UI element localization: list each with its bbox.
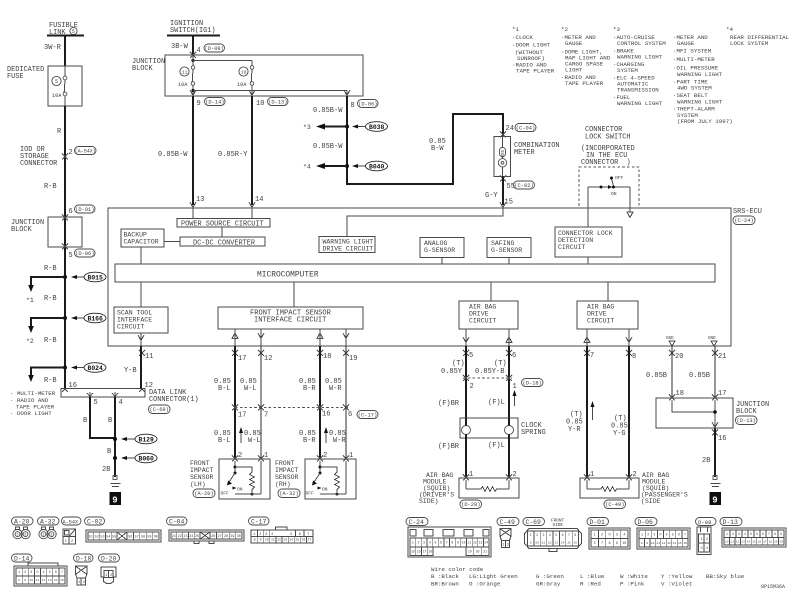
svg-text:WARNING LIGHT: WARNING LIGHT	[677, 71, 723, 78]
air bag module passenger label	[604, 472, 688, 509]
svg-text:10: 10	[651, 542, 655, 545]
svg-text:6: 6	[299, 533, 301, 537]
svg-text:7: 7	[568, 533, 570, 537]
ground ref 9 left	[110, 492, 122, 506]
svg-text:B-L: B-L	[218, 385, 231, 393]
twist arrow passenger	[591, 401, 595, 420]
pin 19 below ecu	[343, 350, 357, 363]
svg-text:TAPE PLAYER: TAPE PLAYER	[516, 68, 555, 75]
svg-text:5: 5	[756, 532, 758, 536]
svg-text:A-20: A-20	[14, 519, 30, 526]
svg-text:8: 8	[574, 533, 576, 537]
svg-text:2: 2	[50, 534, 52, 538]
wire 0.85Y-R pin7	[566, 346, 587, 478]
svg-text:B :Black: B :Black	[431, 573, 459, 580]
svg-text:(T): (T)	[494, 360, 507, 368]
svg-text:10A: 10A	[178, 82, 188, 88]
svg-text:6: 6	[55, 570, 57, 574]
front impact sensor RH box	[305, 459, 356, 499]
svg-text:8P15M36A: 8P15M36A	[761, 584, 785, 590]
svg-text:19: 19	[349, 355, 357, 363]
svg-text:0.85R-Y: 0.85R-Y	[218, 151, 248, 159]
node junction dot 2	[63, 316, 67, 320]
svg-text:CAPACITOR: CAPACITOR	[124, 239, 159, 246]
svg-text:BB:Sky blue: BB:Sky blue	[706, 573, 745, 580]
wire 0.85B-R upper	[299, 346, 320, 459]
svg-text:G-Y: G-Y	[485, 192, 498, 200]
svg-text:13: 13	[741, 540, 745, 543]
svg-text:(A-54X): (A-54X)	[75, 149, 96, 155]
front impact sensor interface circuit box	[218, 307, 363, 329]
pin 24 connector C-04	[500, 124, 536, 138]
svg-text:4WD SYSTEM: 4WD SYSTEM	[677, 85, 712, 92]
svg-text:W-R: W-R	[329, 385, 342, 393]
svg-text:CIRCUIT: CIRCUIT	[117, 324, 144, 331]
connector tag B038	[352, 122, 388, 132]
svg-text:SRS: SRS	[502, 149, 506, 157]
svg-text:DETECTION: DETECTION	[558, 237, 593, 244]
svg-text:IMPACT: IMPACT	[275, 467, 299, 474]
wire 0.85B-L lower label	[214, 430, 231, 445]
pin 12 below ecu	[258, 350, 272, 363]
svg-text:0.85B-W: 0.85B-W	[158, 151, 188, 159]
svg-text:W-R: W-R	[333, 437, 346, 445]
node junction dot B129	[113, 437, 117, 441]
svg-text:4: 4	[706, 547, 708, 551]
svg-text:14: 14	[747, 540, 751, 543]
svg-text:*2: *2	[26, 338, 34, 345]
svg-text:4: 4	[744, 532, 746, 536]
svg-text:CONTROL SYSTEM: CONTROL SYSTEM	[617, 40, 666, 47]
svg-text:C-04: C-04	[169, 519, 185, 526]
junction block 1 label	[11, 219, 44, 234]
connector D-13 pinout	[720, 518, 786, 548]
svg-text:12: 12	[662, 542, 666, 545]
svg-text:(RH): (RH)	[275, 481, 291, 488]
wire backup to microcomputer	[140, 247, 142, 264]
sensor RH internals	[306, 461, 347, 497]
svg-text:BACKUP: BACKUP	[124, 232, 148, 239]
junction block 2 box	[165, 55, 363, 96]
connector C-02 pinout	[85, 517, 162, 542]
pin 15 entry	[347, 202, 506, 237]
svg-text:0.85B: 0.85B	[689, 372, 710, 380]
module passenger pin labels	[584, 471, 637, 481]
svg-text:C-69: C-69	[526, 519, 542, 526]
svg-text:14: 14	[289, 538, 293, 542]
svg-text:10A: 10A	[237, 82, 247, 88]
branch bullet list	[10, 390, 56, 417]
wire micro to scan tool	[140, 282, 142, 307]
svg-text:C-02: C-02	[87, 519, 103, 526]
pin 13 entry	[190, 196, 204, 219]
svg-text:*4: *4	[303, 164, 311, 171]
sensor LH internals	[221, 461, 262, 497]
svg-text:INTERFACE: INTERFACE	[117, 317, 152, 324]
SRS warning lamp	[498, 137, 506, 177]
svg-text:13: 13	[283, 538, 287, 542]
gnd arrow pin 21	[708, 337, 717, 346]
svg-text:18: 18	[428, 550, 432, 554]
svg-text:B060: B060	[139, 456, 155, 463]
svg-text:(D-06): (D-06)	[358, 102, 377, 108]
svg-text:4: 4	[549, 533, 551, 537]
svg-text:(D-06): (D-06)	[75, 251, 94, 257]
svg-text:B-L: B-L	[218, 437, 231, 445]
svg-text:B: B	[108, 417, 112, 425]
node dot B040	[345, 164, 349, 168]
svg-text:5: 5	[55, 79, 58, 85]
combination meter box	[494, 137, 511, 177]
svg-text:(C-69): (C-69)	[149, 407, 168, 413]
svg-text:· MULTI-METER: · MULTI-METER	[10, 390, 56, 397]
svg-text:6: 6	[562, 533, 564, 537]
note column 2	[561, 26, 611, 87]
svg-text:21: 21	[718, 353, 726, 361]
svg-text:10: 10	[622, 542, 626, 546]
svg-text:10: 10	[462, 541, 466, 545]
svg-text:GAUGE: GAUGE	[677, 40, 695, 47]
wire internal bus bottom to pin 8	[193, 91, 347, 97]
svg-text:8: 8	[451, 541, 453, 545]
IOD or storage connector label	[20, 146, 57, 168]
svg-text:0.85Y: 0.85Y	[441, 368, 463, 376]
junction block D-13 pin labels	[669, 390, 726, 401]
svg-text:7: 7	[601, 542, 603, 546]
svg-text:16: 16	[758, 540, 762, 543]
svg-text:23: 23	[183, 535, 187, 539]
svg-text:FUSE: FUSE	[7, 73, 24, 81]
svg-text:(C-02): (C-02)	[514, 183, 533, 189]
wire R main left vertical	[64, 106, 66, 388]
svg-text:17: 17	[307, 538, 311, 542]
svg-text:9: 9	[457, 541, 459, 545]
svg-text:ON: ON	[322, 487, 328, 493]
svg-text:WARNING LIGHT: WARNING LIGHT	[323, 239, 374, 246]
svg-text:53: 53	[100, 535, 104, 539]
svg-text:9: 9	[616, 542, 618, 546]
svg-text:1: 1	[641, 533, 643, 537]
SRS-ECU label C-24	[733, 208, 762, 225]
svg-text:9: 9	[24, 579, 26, 582]
svg-text:SCAN TOOL: SCAN TOOL	[117, 310, 152, 317]
pin 16 below jb	[712, 430, 726, 444]
svg-text:2B: 2B	[702, 457, 710, 465]
svg-text:4: 4	[197, 47, 201, 55]
svg-text:R-B: R-B	[44, 295, 57, 303]
svg-text:5: 5	[94, 399, 98, 407]
svg-text:TRANSMISSION: TRANSMISSION	[617, 87, 659, 94]
wire pin8 to combination meter	[347, 96, 503, 184]
svg-text:11: 11	[467, 541, 471, 545]
svg-text:*3: *3	[303, 124, 311, 131]
pin 18 below ecu	[317, 350, 331, 361]
ground symbol left	[111, 476, 121, 487]
svg-text:OFF: OFF	[221, 491, 230, 497]
pin 8 connector D-06	[351, 100, 379, 111]
wire 0.85W-L lower label	[244, 430, 261, 445]
svg-text:CIRCUIT: CIRCUIT	[587, 318, 614, 325]
connector D-14 pinout	[12, 554, 68, 586]
wire interface to pin 19	[343, 329, 349, 346]
svg-text:5: 5	[49, 570, 51, 574]
svg-text:(LH): (LH)	[190, 481, 206, 488]
svg-text:R-B: R-B	[44, 377, 57, 385]
node junction dot 1	[63, 275, 67, 279]
svg-text:12: 12	[277, 538, 281, 542]
svg-text:L :Blue: L :Blue	[580, 573, 605, 580]
svg-text:(A-32): (A-32)	[279, 491, 298, 497]
svg-text:5: 5	[672, 533, 674, 537]
data link connector label	[149, 389, 199, 414]
svg-text:BR:Brown: BR:Brown	[431, 581, 459, 588]
svg-text:10A: 10A	[52, 93, 62, 99]
note column 1	[512, 26, 555, 75]
wire internal bus top	[193, 60, 252, 62]
connector D-06 pinout	[635, 518, 690, 550]
wire branch *3	[303, 124, 347, 132]
svg-text:W-L: W-L	[248, 437, 261, 445]
svg-text:26: 26	[211, 535, 215, 539]
svg-text:CIRCUIT: CIRCUIT	[469, 318, 496, 325]
ground symbol right	[711, 476, 721, 487]
svg-text:DRIVE CIRCUIT: DRIVE CIRCUIT	[323, 246, 374, 253]
svg-text:22: 22	[178, 535, 182, 539]
connector lock detection circuit box	[555, 227, 622, 264]
wire color code	[431, 566, 745, 588]
svg-text:4: 4	[623, 534, 625, 538]
svg-text:4: 4	[271, 533, 273, 537]
svg-text:CONNECTOR ): CONNECTOR )	[581, 159, 631, 167]
svg-text:10: 10	[725, 540, 729, 543]
wire branch to *1	[26, 277, 65, 304]
twist arrow right pair	[324, 427, 328, 443]
svg-text:AIR BAG: AIR BAG	[469, 304, 496, 311]
dedicated fuse label	[7, 66, 44, 81]
svg-text:1: 1	[502, 544, 504, 548]
svg-text:14: 14	[54, 579, 58, 582]
svg-text:25: 25	[195, 535, 199, 539]
svg-text:2: 2	[732, 532, 734, 536]
svg-text:6: 6	[440, 541, 442, 545]
svg-text:9: 9	[112, 496, 117, 506]
junction block 2 label	[132, 58, 165, 73]
svg-text:16: 16	[718, 435, 726, 443]
svg-text:(FROM JULY 1997): (FROM JULY 1997)	[677, 118, 733, 125]
svg-text:11: 11	[36, 579, 40, 582]
wire interface to pin 17	[232, 329, 238, 346]
wire 0.85W-R upper	[325, 346, 346, 459]
svg-text:B-W: B-W	[431, 145, 444, 153]
front impact sensor LH box	[219, 459, 270, 499]
svg-text:4: 4	[666, 533, 668, 537]
combination meter label	[514, 142, 560, 157]
svg-text:18: 18	[769, 540, 773, 543]
svg-text:GAUGE: GAUGE	[565, 40, 583, 47]
svg-text:2B: 2B	[102, 466, 110, 474]
node junction dot B060	[113, 456, 117, 460]
svg-text:SIDE: SIDE	[553, 523, 564, 528]
wire branch to *2	[26, 318, 65, 345]
ground ref 9 right	[710, 492, 722, 506]
wire drive2 to pin 8	[626, 329, 632, 346]
svg-text:R-B: R-B	[44, 337, 57, 345]
svg-text:19: 19	[468, 550, 472, 554]
svg-text:16: 16	[573, 541, 577, 544]
svg-text:12: 12	[145, 382, 153, 390]
svg-text:CONNECTOR(1): CONNECTOR(1)	[149, 396, 199, 404]
svg-text:T: T	[307, 533, 309, 537]
svg-text:BLOCK: BLOCK	[132, 65, 154, 73]
svg-text:G-SENSOR: G-SENSOR	[424, 247, 455, 254]
svg-text:16: 16	[683, 542, 687, 545]
svg-text:(D-20): (D-20)	[461, 502, 480, 508]
air bag drive circuit box 1	[459, 301, 518, 329]
svg-text:60: 60	[154, 535, 158, 539]
svg-text:BLOCK: BLOCK	[736, 408, 758, 416]
svg-text:21: 21	[172, 535, 176, 539]
module driver pin labels	[463, 471, 517, 481]
svg-text:A-32: A-32	[40, 519, 56, 526]
svg-text:O: O	[659, 533, 661, 537]
connector D-18 pinout	[74, 554, 94, 585]
dc-dc converter box	[180, 237, 265, 247]
ignition switch bus bar	[167, 35, 220, 37]
svg-text:3: 3	[265, 533, 267, 537]
svg-text:11: 11	[542, 541, 546, 544]
svg-text:IMPACT: IMPACT	[190, 467, 214, 474]
svg-text:6: 6	[348, 411, 352, 419]
fuse 18	[237, 61, 254, 97]
svg-text:7: 7	[264, 412, 268, 420]
svg-text:3: 3	[616, 534, 618, 538]
svg-text:5: 5	[594, 542, 596, 546]
connector tag B024	[71, 363, 106, 373]
wire backup to dcdc	[164, 241, 180, 243]
connector tag B060	[121, 453, 157, 463]
svg-text:1: 1	[513, 383, 517, 391]
svg-text:21: 21	[483, 550, 487, 554]
svg-text:C-49: C-49	[500, 519, 516, 526]
analog g-sensor box	[420, 238, 464, 265]
svg-text:11: 11	[731, 540, 735, 543]
pin 6 below ecu	[506, 350, 516, 360]
svg-text:GR:Gray: GR:Gray	[536, 581, 561, 588]
svg-text:5: 5	[469, 352, 473, 360]
pin 14 entry	[249, 196, 263, 219]
svg-text:CONNECTOR: CONNECTOR	[20, 160, 57, 168]
pin 17 below ecu	[232, 350, 246, 363]
power source circuit box	[177, 219, 270, 238]
svg-text:9: 9	[530, 541, 532, 544]
svg-text:3: 3	[30, 570, 32, 574]
node dot fuse feed	[191, 59, 194, 62]
svg-text:17: 17	[238, 412, 246, 420]
svg-text:DC-DC CONVERTER: DC-DC CONVERTER	[193, 239, 255, 247]
svg-text:SYSTEM: SYSTEM	[617, 67, 638, 74]
connector C-24 pinout	[406, 518, 491, 558]
svg-text:B024: B024	[88, 365, 104, 372]
svg-text:10: 10	[535, 541, 539, 544]
svg-text:·MFI SYSTEM: ·MFI SYSTEM	[673, 48, 712, 55]
svg-text:AIR BAG: AIR BAG	[587, 304, 614, 311]
svg-text:17: 17	[718, 390, 726, 398]
svg-text:24: 24	[506, 125, 514, 133]
svg-text:3: 3	[701, 547, 703, 551]
svg-text:27: 27	[217, 535, 221, 539]
svg-text:SPRING: SPRING	[521, 429, 546, 437]
svg-text:8: 8	[608, 542, 610, 546]
svg-text:11: 11	[656, 542, 660, 545]
wire 0.85W-L upper	[240, 346, 261, 459]
svg-text:1: 1	[530, 533, 532, 537]
svg-text:0.85B-W: 0.85B-W	[313, 143, 343, 151]
wire 0.85W-R lower label	[329, 430, 346, 445]
svg-text:8: 8	[18, 579, 20, 582]
wire micro to airbag drive 1	[490, 282, 492, 301]
svg-text:· DOOR LIGHT: · DOOR LIGHT	[10, 410, 52, 417]
warning light drive circuit box	[319, 237, 375, 253]
svg-text:17: 17	[238, 355, 246, 363]
svg-text:SAFING: SAFING	[491, 240, 515, 247]
svg-text:5: 5	[555, 533, 557, 537]
svg-text:(D-14): (D-14)	[205, 100, 224, 106]
svg-text:3B-W: 3B-W	[171, 43, 189, 51]
svg-text:12: 12	[264, 355, 272, 363]
wire 0.85Y-B pin6	[475, 346, 509, 418]
svg-text:O: O	[750, 532, 752, 536]
svg-text:1: 1	[42, 534, 44, 538]
svg-text:9: 9	[646, 542, 648, 545]
wire (F)L to module	[488, 438, 509, 478]
svg-text:G-SENSOR: G-SENSOR	[491, 247, 522, 254]
svg-text:14: 14	[561, 541, 565, 544]
svg-text:55: 55	[112, 535, 116, 539]
svg-text:56: 56	[128, 535, 132, 539]
svg-text:B040: B040	[369, 164, 385, 171]
connector A-54X pinout	[62, 517, 82, 544]
svg-text:12: 12	[473, 541, 477, 545]
svg-text:0.85B: 0.85B	[646, 372, 667, 380]
wire scan tool to pin 11	[138, 333, 144, 346]
svg-text:CIRCUIT: CIRCUIT	[558, 244, 585, 251]
svg-text:10: 10	[265, 538, 269, 542]
pin 5 below ecu	[463, 350, 473, 360]
svg-text:Y-G: Y-G	[613, 430, 626, 438]
svg-text:7: 7	[684, 533, 686, 537]
pin 9 connector D-14	[197, 98, 226, 109]
svg-text:13: 13	[479, 541, 483, 545]
svg-text:1: 1	[412, 541, 414, 545]
wire interface to pin 12	[258, 329, 264, 346]
svg-text:3: 3	[653, 533, 655, 537]
svg-text:Y :Yellow: Y :Yellow	[661, 573, 693, 580]
ignition switch label	[170, 20, 216, 35]
svg-text:B: B	[83, 417, 87, 425]
note column 3	[613, 26, 666, 107]
svg-text:1: 1	[105, 574, 107, 578]
svg-text:24: 24	[189, 535, 193, 539]
svg-text:W :White: W :White	[620, 573, 648, 580]
svg-text:1: 1	[18, 570, 20, 574]
svg-text:14: 14	[484, 541, 488, 545]
svg-text:A-54X: A-54X	[63, 520, 79, 526]
wire 3B-W	[171, 36, 193, 56]
connector D-08 pinout	[696, 518, 717, 555]
svg-text:12: 12	[548, 541, 552, 544]
svg-text:20: 20	[675, 353, 683, 361]
wire drive1 to pin 5	[463, 329, 469, 346]
